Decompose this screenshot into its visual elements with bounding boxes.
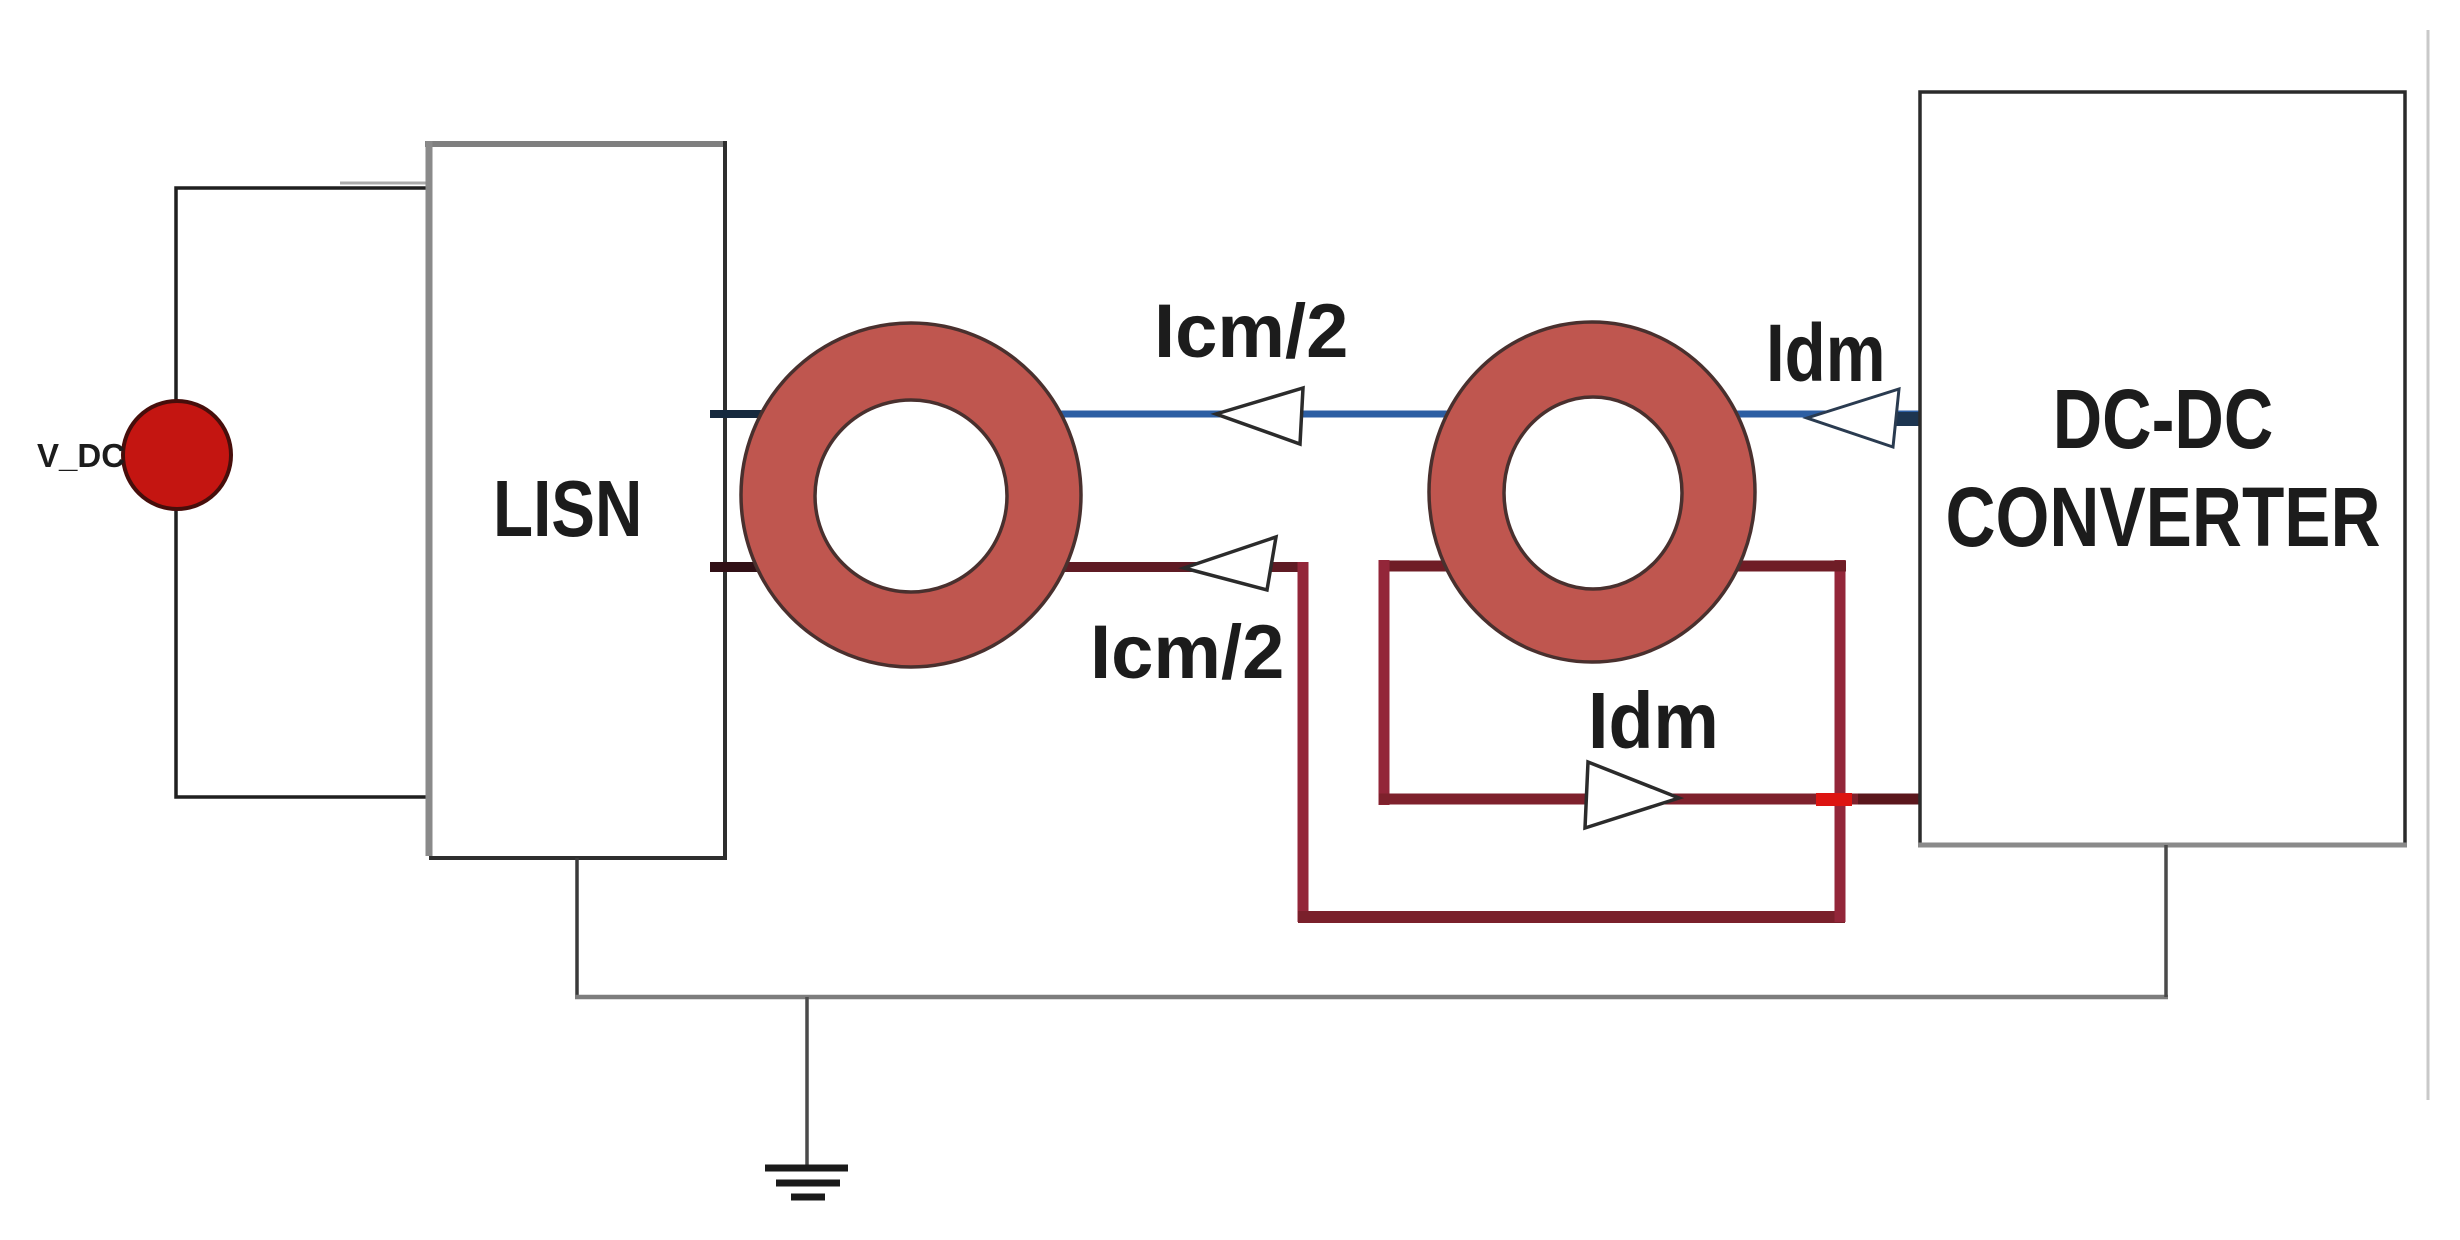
DC-DC converter block	[1918, 92, 2407, 845]
arrow Idm top left-pointing	[1807, 389, 1899, 447]
wire maroon horizontal to DC-DC	[1379, 794, 1920, 805]
node red junction	[1816, 793, 1852, 806]
label V_DC	[37, 437, 125, 474]
wire ground bus horizontal	[575, 995, 2168, 1000]
svg-text:Icm/2: Icm/2	[1154, 289, 1348, 374]
wire maroon outer loop left vertical	[1298, 562, 1309, 922]
label LISN	[493, 464, 642, 554]
wire maroon inner left vertical	[1379, 560, 1390, 805]
LISN block	[425, 141, 727, 858]
svg-text:LISN: LISN	[493, 464, 642, 554]
DM current toroid T2	[1429, 322, 1755, 662]
wire maroon line LISN to corner	[710, 562, 1305, 572]
ground symbol	[765, 1168, 848, 1197]
CM current toroid T1	[741, 323, 1081, 667]
node V_DC source dot	[123, 401, 231, 509]
label Idm top	[1766, 307, 1886, 399]
arrow Icm/2 top left-pointing	[1216, 388, 1303, 444]
svg-text:DC-DC: DC-DC	[2053, 373, 2274, 466]
decorative right page border	[2427, 30, 2430, 1100]
arrow Icm/2 lower left-pointing	[1184, 537, 1276, 590]
label Idm bottom	[1588, 676, 1719, 766]
svg-text:CONVERTER: CONVERTER	[1945, 471, 2380, 565]
wire DC-DC bottom descender	[2164, 845, 2168, 997]
label Icm/2 top	[1154, 289, 1348, 374]
wire V_DC source loop	[176, 183, 427, 797]
arrow Idm bottom right-pointing	[1585, 762, 1679, 828]
wire blue line LISN to DC-DC	[710, 412, 1920, 426]
label DC-DC CONVERTER	[1945, 373, 2380, 564]
label Icm/2 lower	[1090, 610, 1284, 695]
wire maroon bottom horizontal	[1298, 911, 1845, 923]
wire LISN bottom descender	[575, 858, 579, 997]
svg-text:Idm: Idm	[1766, 307, 1886, 399]
svg-text:V_DC: V_DC	[37, 437, 125, 474]
wire maroon right vertical	[1835, 560, 1846, 922]
wire maroon inner top horizontal through toroid T2	[1379, 561, 1846, 572]
wire ground drop	[805, 997, 809, 1167]
svg-text:Icm/2: Icm/2	[1090, 610, 1284, 695]
svg-text:Idm: Idm	[1588, 676, 1719, 766]
